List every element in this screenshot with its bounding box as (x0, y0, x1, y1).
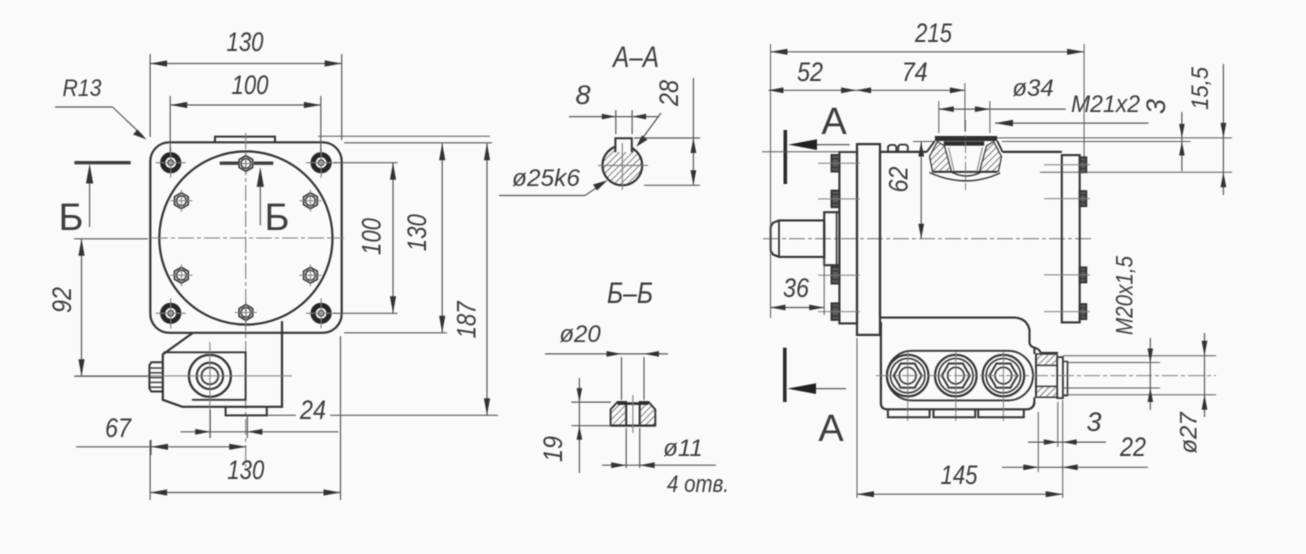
section plane A bottom (783, 348, 787, 402)
center line vertical (245, 133, 247, 467)
stray extension line left of flange (762, 151, 856, 153)
cover bolt head edge at y=198.6 (1080, 191, 1087, 206)
flange bolt head edge at y=198.9 (832, 191, 840, 208)
shaft section circle hatched o25k6 (602, 146, 642, 186)
svg-text:R13: R13 (63, 75, 103, 102)
svg-text:100: 100 (232, 70, 269, 100)
small plugs on body top left (888, 145, 896, 152)
svg-text:Б: Б (59, 197, 84, 239)
port cone sides (927, 141, 935, 152)
B-B washer block right hatch (640, 402, 656, 426)
dim 130 bottom (150, 492, 340, 494)
section mark B center (220, 161, 239, 164)
dim 3 port lip (1181, 112, 1183, 171)
boss bottom right fillet to port (1033, 347, 1035, 402)
corner bolt hole at 321,313 (313, 305, 329, 321)
svg-text:M20x1,5: M20x1,5 (1112, 255, 1139, 335)
fitting boss face rect (164, 352, 246, 400)
top port boss M21x2 (935, 136, 997, 141)
port left hatch wall (930, 142, 952, 172)
dim 3 washer (1028, 441, 1106, 443)
fitting port middle circle (197, 363, 223, 389)
hex screw hole at 270 deg (239, 305, 253, 321)
bottom-left fitting block outline (163, 321, 282, 407)
front view: mounting flange plate 130x130 (150, 142, 341, 332)
svg-text:ø34: ø34 (1012, 75, 1053, 102)
svg-text:Б–Б: Б–Б (607, 277, 653, 310)
dim 36 (771, 307, 825, 309)
bottom boss hex plug at x=907.7 (887, 355, 929, 397)
dim 15,5 (1222, 64, 1224, 195)
bottom boss hex plug at x=1003.4 (983, 355, 1025, 397)
B-B counterbore top thick edge (618, 402, 649, 405)
svg-text:130: 130 (402, 214, 432, 251)
collar washer line (836, 212, 838, 265)
hex screw hole at 150 deg (175, 193, 189, 209)
fitting port outer circle (189, 355, 231, 397)
svg-text:3: 3 (1141, 99, 1171, 114)
boss racetrack (887, 351, 1033, 401)
mounting flange plate edge-on (857, 144, 880, 335)
svg-text:ø27: ø27 (1176, 411, 1203, 454)
diagonal leader to keyway from 28 (639, 113, 661, 143)
dim o34 (939, 108, 1066, 110)
dim 145 (857, 493, 1063, 495)
hex screw hole at 330 deg (304, 267, 318, 283)
dim 130 top (150, 63, 342, 65)
dim 67 bottom (76, 446, 246, 448)
svg-text:4 отв.: 4 отв. (667, 471, 729, 498)
motor body (880, 152, 1062, 318)
svg-text:3: 3 (1086, 407, 1101, 437)
feet tabs under boss (888, 409, 930, 417)
dim 24 bottom (180, 431, 338, 433)
svg-text:36: 36 (783, 273, 810, 303)
center line horizontal (152, 237, 344, 239)
cover bolt head edge at y=164.8 (1080, 157, 1087, 172)
corner bolt hole at 321,163 (313, 155, 329, 171)
boss long center line (876, 375, 1216, 377)
dim 22 (1002, 466, 1148, 468)
ribbed connector on left of fitting (149, 362, 162, 391)
flange bolt head edge at y=163.3 (832, 155, 840, 172)
hex screw hole at 210 deg (175, 267, 189, 283)
svg-text:130: 130 (227, 455, 264, 485)
port right hatch wall (980, 142, 1002, 172)
bottom boss hex plug at x=955.8 (935, 355, 977, 397)
hex screw hole at 90 deg (239, 156, 253, 172)
bottom tab under fitting (226, 407, 267, 416)
svg-text:Б: Б (265, 197, 290, 239)
dim M20x1,5 (1149, 338, 1151, 410)
B-B center line (632, 395, 634, 433)
dim 130 right vertical (441, 143, 443, 333)
hex screw hole at 30 deg (304, 193, 318, 209)
dim 28 (692, 78, 694, 185)
corner bolt hole at 171,163 (163, 155, 179, 171)
dim 100 right vertical (392, 163, 394, 314)
tab top extension line (318, 135, 490, 137)
svg-text:22: 22 (1119, 432, 1146, 462)
port seat line (1041, 352, 1059, 354)
svg-text:52: 52 (797, 57, 823, 87)
cover bolt head edge at y=274.9 (1080, 267, 1087, 282)
rear cover plate (1062, 155, 1080, 322)
flange bolt head edge at y=311.6 (832, 303, 840, 320)
svg-text:A: A (818, 408, 844, 450)
port cavity bottom thick (933, 171, 998, 173)
dim o11 (602, 464, 716, 466)
dim 8 keyway width (569, 116, 659, 118)
svg-text:130: 130 (227, 27, 264, 57)
keyway slot (615, 138, 631, 152)
dim 92 left (81, 239, 83, 376)
section mark B left (74, 161, 130, 164)
port cavity arcs (930, 173, 1001, 181)
svg-text:215: 215 (914, 18, 953, 48)
dim o27 (1204, 333, 1206, 417)
dim 19 (578, 378, 580, 473)
dim 187 right vertical (486, 143, 488, 415)
svg-text:92: 92 (47, 287, 77, 313)
dim 52 (768, 89, 965, 91)
B-B hole channel walls (625, 404, 627, 426)
corner bolt hole at 171,313 (163, 305, 179, 321)
extension lines for port dims (997, 137, 1232, 139)
flange bolt head edge at y=275.3 (832, 267, 840, 284)
spigot circle ø118 (159, 151, 332, 324)
svg-text:62: 62 (884, 167, 914, 193)
svg-text:8: 8 (575, 80, 590, 110)
svg-text:145: 145 (941, 460, 979, 490)
shaft collar (824, 212, 839, 265)
shaft center lines (598, 164, 648, 166)
port axis (965, 120, 967, 190)
hub plate o118 edge-on (839, 152, 857, 323)
svg-text:ø25k6: ø25k6 (512, 165, 581, 192)
svg-text:100: 100 (357, 218, 387, 255)
main axis center line (763, 238, 1092, 240)
dim o20 (545, 353, 668, 355)
shaft chamfer line (778, 220, 780, 257)
bottom boss block (881, 322, 1035, 409)
svg-text:ø20: ø20 (559, 321, 601, 348)
top tab on plate (215, 137, 275, 143)
fitting port inner circle (202, 368, 219, 385)
cover bolt head edge at y=311.6 (1080, 304, 1087, 319)
B-B washer block left hatch (611, 402, 627, 426)
svg-text:A–A: A–A (611, 41, 659, 74)
dim 74 (856, 87, 871, 93)
side port hex plug hatched (1036, 354, 1057, 365)
dim 100 top (170, 104, 321, 106)
svg-text:A: A (821, 101, 847, 143)
side port washer (1057, 357, 1063, 398)
side port plug tip (1063, 362, 1068, 396)
svg-text:24: 24 (299, 395, 326, 425)
dim 62 (920, 142, 922, 239)
svg-text:187: 187 (452, 301, 482, 339)
svg-text:ø11: ø11 (663, 435, 703, 462)
svg-text:15,5: 15,5 (1187, 66, 1214, 110)
svg-text:19: 19 (538, 436, 568, 462)
shaft o25 (771, 220, 825, 257)
body bottom edge and neck to side port (880, 318, 1041, 353)
svg-text:67: 67 (105, 413, 132, 443)
svg-text:74: 74 (902, 57, 928, 87)
section plane A top (783, 130, 787, 184)
label M21x2 (995, 122, 1148, 124)
svg-text:28: 28 (654, 80, 684, 107)
svg-text:M21x2: M21x2 (1071, 91, 1140, 118)
dim 215 top (771, 51, 1085, 53)
port thread channel lines (949, 148, 955, 171)
port center lines (209, 342, 211, 438)
